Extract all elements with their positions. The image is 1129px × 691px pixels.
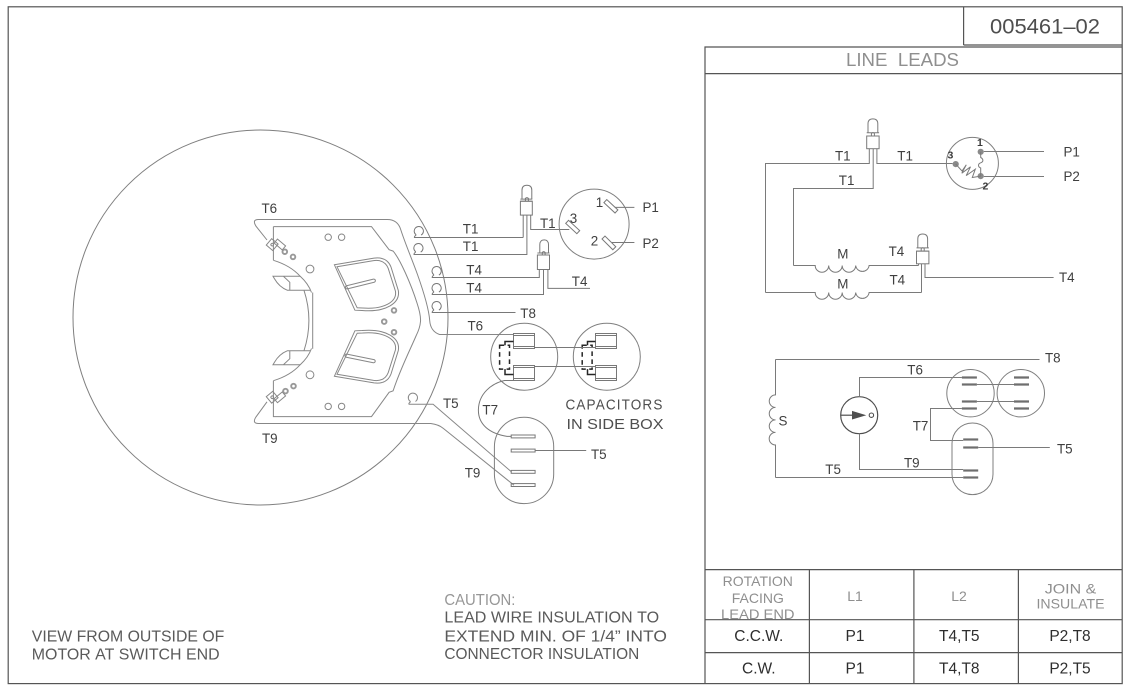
wire curl T4 b: [432, 270, 543, 295]
oval blade 3: [511, 470, 535, 473]
terminal T6 tab: [266, 236, 285, 255]
protector heater zigzag: [956, 164, 981, 177]
capB plates: [1014, 378, 1029, 409]
switch arm: [841, 414, 853, 416]
wire curl T1 b: [414, 215, 527, 254]
svg-text:3: 3: [570, 211, 577, 226]
wire between capacitor tops: [535, 347, 596, 349]
oval blade 2: [511, 449, 535, 452]
svg-text:T1: T1: [897, 148, 913, 163]
lower D cutout inner: [337, 333, 396, 381]
terminal T9 tab: [266, 387, 285, 406]
T5 lead wire diagonal: [409, 404, 512, 472]
svg-text:T4: T4: [1059, 270, 1075, 285]
oval plates right panel: [963, 440, 978, 478]
svg-text:T4: T4: [890, 273, 906, 288]
upper wing tab: [273, 276, 310, 290]
svg-text:T7: T7: [482, 403, 498, 418]
switch top wire T6: [860, 378, 962, 397]
svg-text:T1: T1: [540, 216, 556, 231]
svg-text:C.W.: C.W.: [742, 661, 776, 678]
motor outline circle: [73, 130, 448, 505]
svg-text:T1: T1: [835, 148, 851, 163]
svg-text:3: 3: [948, 150, 954, 162]
svg-text:T4: T4: [572, 274, 588, 289]
plate hole upper mid: [306, 265, 314, 273]
svg-text:JOIN &: JOIN &: [1045, 581, 1097, 597]
washer rivets upper left: [283, 249, 296, 259]
LINE LEADS band bottom line: [705, 73, 1122, 75]
svg-text:T5: T5: [443, 396, 459, 411]
plate central bore sweep bottom: [273, 349, 311, 381]
plug slot 3: [566, 220, 580, 233]
T8 top wire: [776, 359, 1040, 361]
T7 wire: [931, 409, 964, 441]
plug slot 1: [604, 200, 618, 213]
svg-text:T6: T6: [907, 363, 923, 378]
lower wing tab: [273, 351, 310, 365]
plate hole lower mid: [306, 371, 314, 379]
svg-text:T8: T8: [520, 306, 536, 321]
bullet connector T4: [537, 240, 590, 289]
cap2 bottom terminal block: [596, 366, 617, 381]
bore arc: [304, 290, 309, 350]
right panel: [766, 119, 1054, 495]
cap2 top terminal block: [596, 334, 617, 349]
connector oval: [494, 417, 553, 503]
cap2 dashed capacitor body: [582, 345, 592, 369]
P2 line lead: [984, 176, 1044, 178]
cap1 bottom terminal block: [514, 366, 535, 381]
capA plates: [962, 378, 977, 409]
run capacitor circle B: [997, 370, 1044, 417]
svg-text:P1: P1: [643, 200, 659, 215]
plug connector circle: [559, 189, 629, 259]
thermal protector circle: [946, 137, 998, 189]
svg-text:T8: T8: [1045, 351, 1061, 366]
plate central bore sweep top: [273, 260, 311, 292]
cap2 step links: [588, 342, 596, 375]
svg-text:MOTOR AT SWITCH END: MOTOR AT SWITCH END: [32, 647, 220, 664]
switch arrow head: [852, 411, 866, 420]
svg-text:P1: P1: [846, 661, 865, 678]
title block divider: [705, 7, 1122, 684]
T9 lead wire around plate: [254, 402, 514, 485]
plug slot 2: [602, 236, 616, 250]
wire curl T1 a: [414, 227, 523, 238]
bullet connector T1 line: [867, 119, 879, 149]
run capacitor circle A: [947, 370, 994, 417]
svg-text:ROTATION: ROTATION: [723, 573, 793, 589]
lower D cutout outer: [334, 330, 398, 383]
plate hole top pair: [325, 234, 331, 240]
capacitor circle left: [491, 323, 558, 390]
upper D slot: [345, 279, 376, 290]
svg-text:INSULATE: INSULATE: [1037, 596, 1105, 612]
svg-text:T4: T4: [889, 244, 905, 259]
wire T1 left: [766, 149, 870, 293]
svg-text:T9: T9: [262, 431, 278, 446]
svg-text:T6: T6: [262, 201, 278, 216]
svg-text:T4: T4: [466, 280, 482, 295]
T5 lead curl: [408, 393, 417, 404]
svg-text:T1: T1: [463, 239, 479, 254]
svg-text:T9: T9: [465, 465, 481, 480]
protector pin 3 dot: [953, 161, 959, 167]
protector pin 1 dot: [978, 149, 984, 155]
main winding M upper: [794, 266, 919, 273]
svg-text:1: 1: [596, 195, 603, 210]
wire between capacitor bottoms: [535, 366, 596, 368]
svg-text:T7: T7: [913, 418, 929, 433]
svg-text:1: 1: [977, 137, 983, 149]
svg-text:S: S: [779, 414, 788, 429]
start winding S coil: [769, 360, 775, 478]
svg-text:T1: T1: [839, 173, 855, 188]
T7 swoop wire: [478, 381, 513, 437]
centrifugal switch circle: [841, 397, 878, 434]
plate hole bottom pair: [325, 403, 331, 409]
svg-text:L2: L2: [951, 588, 967, 604]
svg-text:CAPACITORS: CAPACITORS: [566, 398, 664, 414]
T5 right lead: [978, 447, 1050, 449]
oval blade 4: [511, 484, 535, 487]
table: [705, 570, 1122, 684]
svg-text:P1: P1: [846, 628, 865, 645]
bullet T4 legs: [919, 264, 1054, 293]
svg-text:VIEW FROM OUTSIDE OF: VIEW FROM OUTSIDE OF: [32, 628, 225, 645]
svg-text:T4,T5: T4,T5: [939, 628, 979, 645]
T5 bottom wire: [776, 477, 964, 479]
svg-text:FACING: FACING: [732, 590, 784, 606]
upper D cutout inner: [337, 260, 396, 308]
svg-text:P2,T8: P2,T8: [1049, 628, 1090, 645]
oval capacitor right panel: [952, 423, 993, 495]
switch contact dot: [869, 413, 873, 417]
drawing-number box: [964, 7, 1123, 45]
cap1 dashed capacitor body: [500, 345, 510, 369]
svg-text:T5: T5: [825, 462, 841, 477]
svg-text:EXTEND MIN. OF 1/4” INTO: EXTEND MIN. OF 1/4” INTO: [444, 629, 667, 646]
svg-text:P2,T5: P2,T5: [1049, 661, 1090, 678]
svg-text:CAUTION:: CAUTION:: [444, 592, 515, 609]
protector pin 2 dot: [978, 173, 984, 179]
P1 lead wire: [615, 206, 635, 208]
capacitor circle right: [573, 323, 640, 390]
svg-text:2: 2: [983, 181, 989, 193]
bullet connector T1: [520, 185, 569, 237]
mid connectors: [414, 185, 640, 503]
switch plate outline: [273, 227, 420, 417]
wire T1 mid: [794, 149, 874, 266]
svg-text:CONNECTOR INSULATION: CONNECTOR INSULATION: [444, 646, 639, 663]
wire T1 right to protector: [877, 149, 953, 164]
cap1 step links: [505, 342, 514, 375]
protector bimetal contact: [979, 152, 983, 176]
bore right vertical edge: [312, 293, 314, 349]
table header ROTATION FACING LEAD END: [721, 573, 1104, 622]
svg-text:C.C.W.: C.C.W.: [734, 628, 783, 645]
switch bottom wire T9: [860, 434, 964, 470]
svg-text:P2: P2: [643, 236, 659, 251]
lower D slot: [345, 354, 376, 363]
svg-text:IN SIDE BOX: IN SIDE BOX: [567, 417, 664, 433]
svg-text:T4: T4: [466, 263, 482, 278]
LINE LEADS panel frame: [705, 47, 1122, 684]
main winding M lower: [766, 293, 922, 300]
svg-text:LEAD END: LEAD END: [721, 606, 795, 622]
bottom texts: [32, 592, 667, 664]
upper D cutout outer: [334, 258, 398, 311]
svg-text:T5: T5: [591, 447, 607, 462]
svg-text:T1: T1: [463, 222, 479, 237]
left motor view: [73, 130, 514, 505]
svg-text:T6: T6: [468, 319, 484, 334]
table grid: [705, 569, 1122, 571]
svg-text:T4,T8: T4,T8: [939, 661, 979, 678]
svg-text:P1: P1: [1064, 145, 1080, 160]
capA-capB link wires: [977, 385, 1014, 402]
wire curl T8: [432, 302, 515, 313]
P2 lead wire: [612, 242, 634, 244]
svg-text:M: M: [837, 247, 848, 262]
svg-text:T5: T5: [1057, 442, 1073, 457]
svg-text:L1: L1: [847, 588, 863, 604]
cap1 top terminal block: [514, 334, 535, 349]
svg-text:LINE LEADS: LINE LEADS: [846, 49, 959, 70]
T6 lead wire around plate: [254, 219, 513, 334]
svg-text:T9: T9: [904, 455, 920, 470]
bullet connector T4 line: [917, 234, 929, 264]
svg-text:005461–02: 005461–02: [990, 16, 1100, 39]
svg-text:2: 2: [591, 234, 598, 249]
T5 blade lead wire: [535, 450, 586, 452]
oval blade 1: [511, 435, 535, 438]
washer rivets right column: [382, 308, 396, 334]
svg-text:M: M: [837, 277, 848, 292]
svg-text:LEAD WIRE INSULATION TO: LEAD WIRE INSULATION TO: [444, 610, 659, 627]
svg-text:P2: P2: [1064, 169, 1080, 184]
P1 line lead: [984, 151, 1044, 153]
washer rivets lower left: [283, 384, 296, 394]
wire curl T4 a: [432, 267, 539, 278]
